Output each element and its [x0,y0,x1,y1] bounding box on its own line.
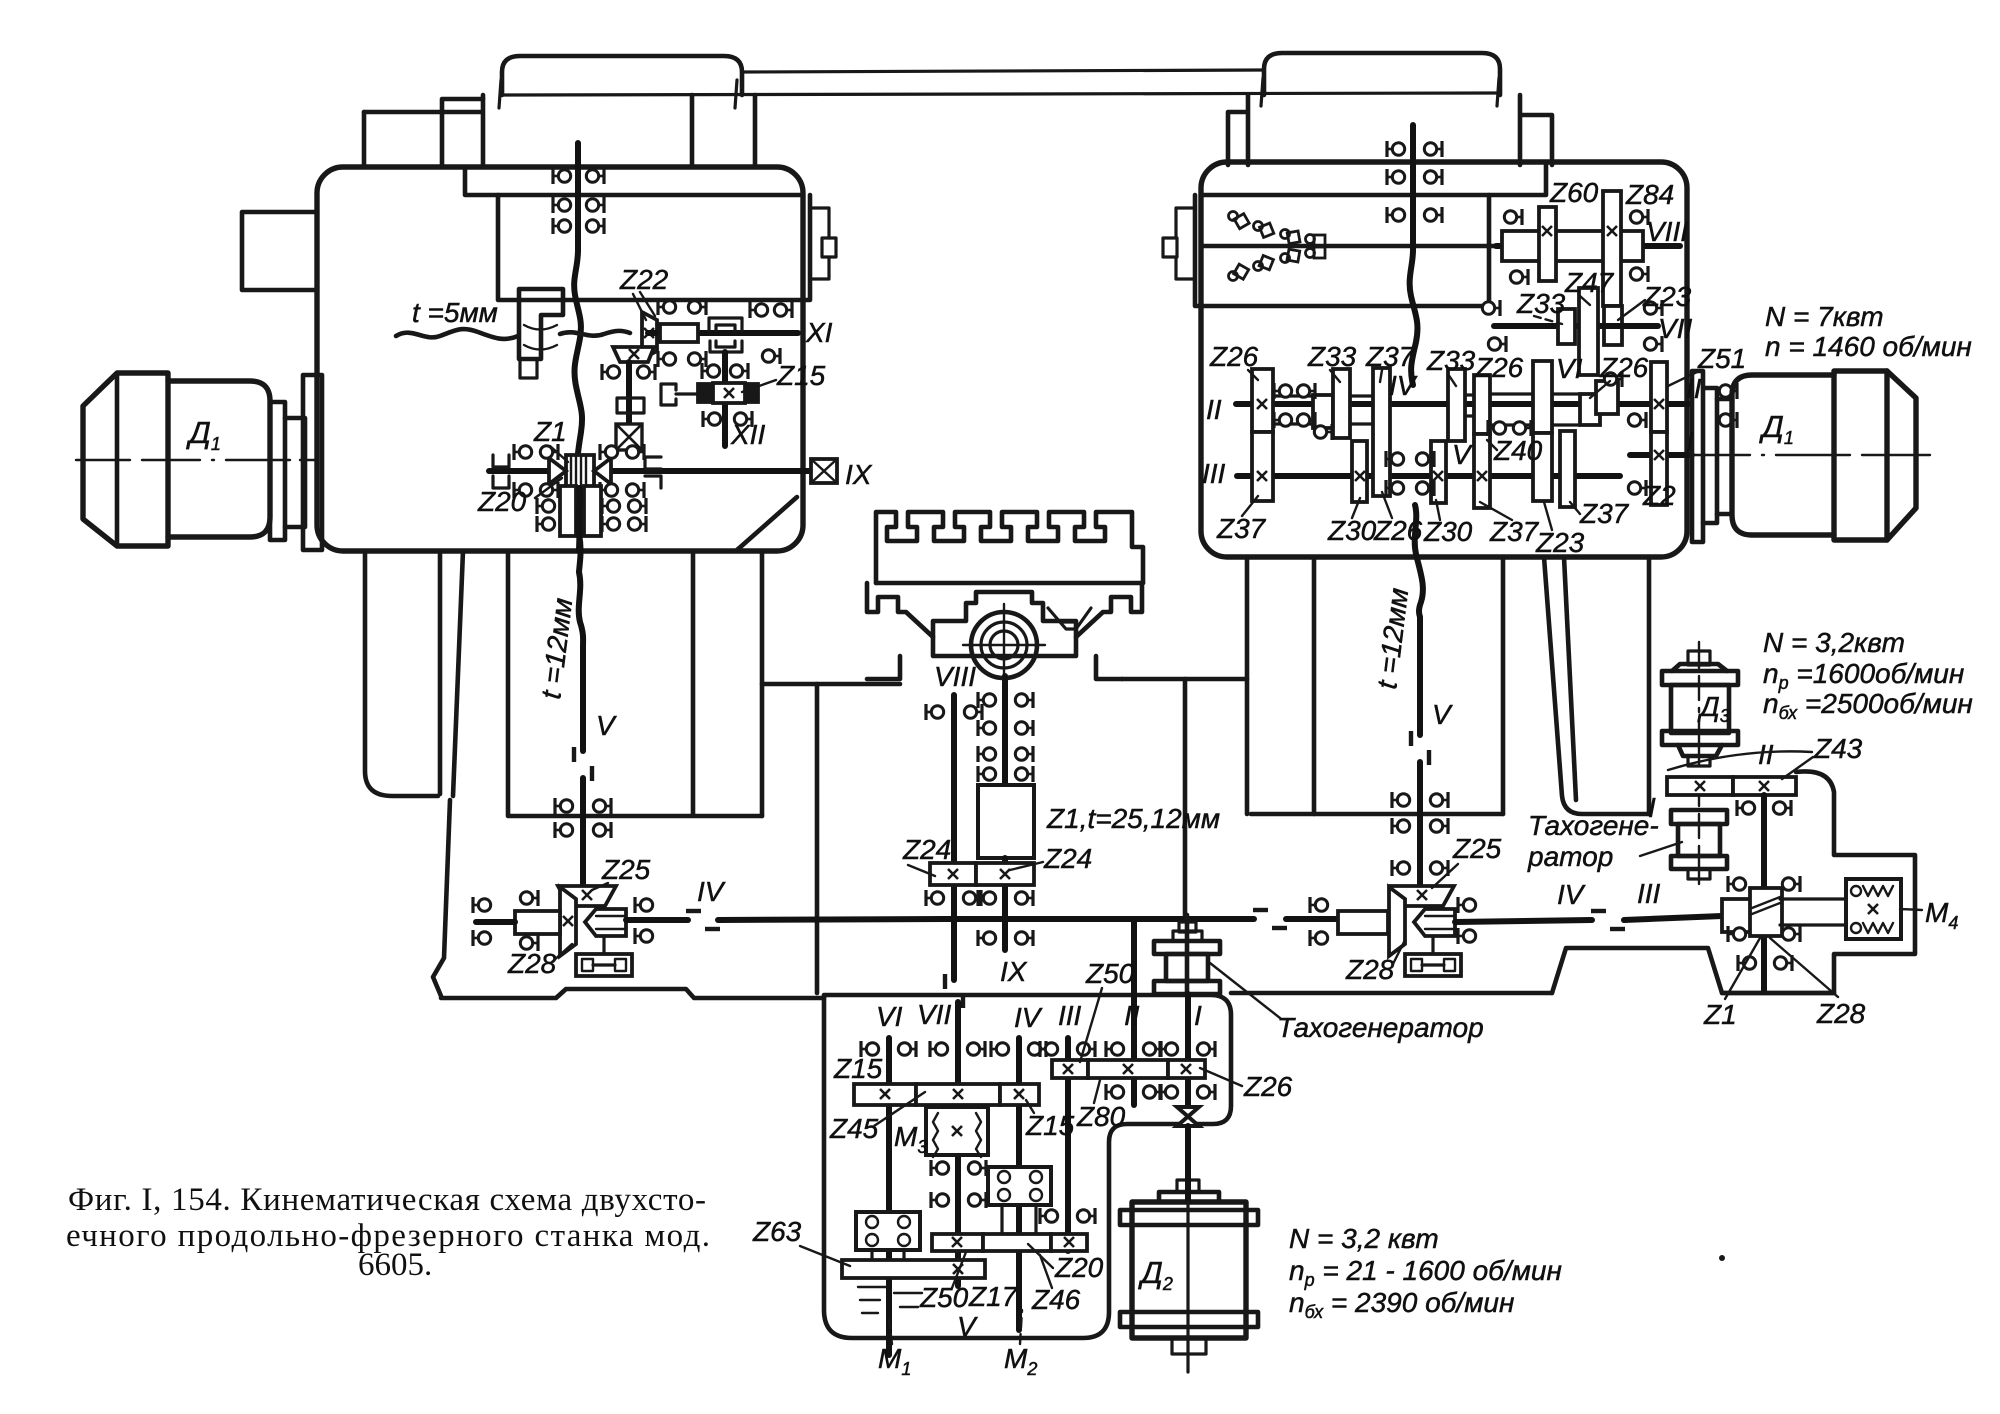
vertical feed screw (wavy) [574,143,582,551]
support post [815,684,820,993]
motor D1 left flange plate [303,375,322,550]
bearing VII right-bottom [1644,336,1662,352]
gear cover plate [498,195,810,300]
svg-text:III: III [1637,878,1661,909]
svg-text:VI: VI [876,1001,903,1032]
right column line a [1245,557,1250,814]
leader Z30 b2 [1352,498,1360,518]
leader Z25 right [1432,864,1458,888]
brake block Z28 left [576,954,632,976]
leader Z24 left [908,865,935,876]
leader M4 [1900,909,1922,910]
tachogenerator right upper flange [1671,810,1727,824]
svg-text:Z37: Z37 [1216,513,1267,544]
svg-text:N = 3,2 квт: N = 3,2 квт [1289,1223,1439,1254]
bearing VII left-top [1482,300,1500,316]
right column face bottom [1251,812,1503,817]
column line b [453,551,463,796]
clutch half on IV right [1414,909,1455,936]
bearing pairs right area [1604,371,1622,387]
motor D1 left body [168,381,270,537]
column line a [438,551,443,794]
leader Z1 right [1725,938,1760,999]
svg-text:IX: IX [845,459,873,490]
svg-text:Тахогенератор: Тахогенератор [1277,1012,1484,1043]
bearing pairs screw col row1 [978,692,996,708]
svg-text:Фиг. I, 154. Кинематическая сх: Фиг. I, 154. Кинематическая схема двухст… [68,1182,706,1218]
svg-text:Z30: Z30 [1327,515,1377,546]
saddle V-notch [1048,608,1091,631]
bearing pair IX below IV [978,930,996,946]
column outer casing left [365,551,438,796]
svg-text:Тахогене-: Тахогене- [1528,810,1659,841]
bearing sleeve bottom [520,935,538,951]
svg-text:Z23: Z23 [1642,281,1692,312]
bearing rows below worm right [602,498,620,514]
leader Z51 [1668,372,1697,386]
bearing pair Z22 shaft [602,364,620,380]
bearing VIII right-top [1630,209,1648,225]
bearing pair V right row1 [1392,792,1410,808]
shaft V right lower [1417,762,1423,890]
bearing row top VII [930,1041,948,1057]
horizontal screw t=5mm right part [560,331,630,336]
right head body [1228,95,1552,165]
svg-text:II: II [1686,373,1702,404]
shaft to M4 double line [1780,899,1846,925]
bed bottom under bracket [1722,991,1834,996]
leader M1 dashed [889,1320,892,1344]
vertical shaft from Z22 [626,362,632,425]
tachogenerator right stub [1688,869,1710,879]
left gearbox housing [317,167,803,551]
svg-text:I: I [1686,426,1694,457]
bearing pair VII below M3 [931,1160,949,1176]
bed left edge [433,800,450,996]
leader tacho right [1640,842,1682,856]
svg-text:III: III [1058,1000,1082,1031]
svg-text:VIII: VIII [934,661,976,692]
gear block Z37-Z23 [1533,361,1552,433]
shaft V upper [580,646,586,751]
work table with T-slots [876,512,1143,583]
svg-text:6605.: 6605. [358,1247,432,1283]
shaft V right wavy [1415,505,1423,617]
leader Z45 [874,1092,925,1126]
svg-text:II: II [1758,739,1774,770]
nut pipe arcs [524,325,557,350]
gear cover plate right [1195,195,1489,306]
bearing pair worm shaft row1 [1737,800,1755,816]
motor D1 left centerline [76,459,318,461]
bearing pair XI left-bottom [658,351,676,367]
screw nut bracket [519,289,563,359]
bearing pair VIII [926,704,944,720]
coupling IV left [686,911,720,929]
svg-text:Z26: Z26 [1209,341,1259,372]
elevating screw upper [1002,676,1008,785]
worm wheel housing right plate [584,486,601,536]
clutch jaws IX right [645,457,661,488]
scattered roller bearings in cover [1229,212,1326,281]
svg-text:Z37: Z37 [1365,341,1416,372]
motor D3 stub top [1688,651,1710,665]
bed bottom right of box [1231,991,1552,996]
tachogenerator center [1179,922,1196,932]
shaft VIII vertical [951,695,957,980]
motor D1 left step1 [270,402,285,540]
leader Z33 upper [1534,316,1562,324]
svg-text:Z15: Z15 [833,1053,883,1084]
saddle under step left [867,656,900,679]
motor D1 left step2 [285,418,305,527]
bearing pair below Z24 left [926,890,944,906]
bearing pair V right row2 [1392,818,1410,834]
shaft I right gearbox [1630,452,1692,458]
leader Z1 left [550,446,568,462]
shaft IX horizontal [489,468,810,474]
shaft V wavy upper [579,572,583,646]
svg-text:Z24: Z24 [902,834,951,865]
right column inner slant [1564,557,1576,800]
housing top step [1201,162,1546,195]
bevel gear Z22 on shaft XI [642,312,657,359]
shaft XII vertical [722,352,728,446]
leader Z26 c6 [1590,381,1610,398]
shaft Ib vertical [1185,994,1191,1180]
svg-text:Z43: Z43 [1813,733,1863,764]
bearing pair XI left-top [658,299,676,315]
gear row Z15-Z45-Z15 [854,1084,916,1105]
shaft IIIb vertical [1065,1038,1071,1251]
bearing sleeve top [520,890,538,906]
svg-text:Z37: Z37 [1579,498,1630,529]
leader Z63 [800,1246,850,1266]
svg-text:V: V [1452,439,1473,470]
gear row Z63 [842,1260,985,1278]
svg-text:Z15: Z15 [776,360,826,391]
nut crosshair [963,604,1045,686]
screw nut circle inner [990,631,1018,659]
bearing VII left-bottom [1488,336,1506,352]
svg-text:VII: VII [917,999,951,1030]
leader Z43 b [1782,757,1813,779]
leader Z37 b7 [1570,502,1580,514]
bearing pair V right row3 [1392,860,1410,876]
cover tab boss [822,238,836,257]
clutch jaws on XI [709,318,742,331]
bevel gear Z25 left [558,886,616,906]
gear stem Z28 left [602,936,605,954]
svg-text:nбх = 2390 об/мин: nбх = 2390 об/мин [1289,1287,1514,1322]
shaft IVb vertical [1016,1038,1022,1330]
bearing row top IIb [1106,1041,1124,1057]
bearing pair IX right-bottom [600,482,618,498]
screw below block [1002,858,1008,950]
bearing pairs screw col row4 [978,766,996,782]
bearing pair IV far-left bottom [473,930,491,946]
sleeve on XI [660,324,698,342]
svg-text:IV: IV [697,876,726,907]
step sleeve right [1580,394,1600,425]
bearing pair IX left-top [514,444,532,460]
bevel gear Z22 mate on vertical shaft [613,347,654,362]
svg-text:Z20: Z20 [477,486,527,517]
sleeve box on II [1313,395,1333,428]
leader M2 dashed [1020,1310,1022,1344]
svg-text:V: V [957,1311,978,1342]
clutch jaws IX left [493,455,509,488]
left head step box1 [364,99,483,167]
shaft IV to right cluster [1286,916,1338,922]
gear Z24 left [930,863,976,885]
bevel gear on IV left [560,887,576,956]
worm wheel housing left plate [560,486,576,536]
gear row lower Z50-Z20 [932,1234,983,1251]
sleeve on IV left [515,911,560,934]
clutch stems VI [872,1250,904,1262]
belt drive symbol on Ib [1177,1107,1199,1126]
svg-text:IX: IX [1000,956,1028,987]
tachogenerator right lower flange [1671,856,1727,869]
shaft VIII coupling to gearbox [945,974,963,1008]
motor D1 right flange plate [1692,371,1703,542]
svg-text:Z26: Z26 [1599,352,1649,383]
motor D3 stub bottom [1688,756,1710,766]
svg-text:nр = 21 - 1600 об/мин: nр = 21 - 1600 об/мин [1289,1255,1562,1290]
gear Z37 tall [1373,368,1390,496]
screw wavy through housing [578,488,580,572]
saddle under step right [1096,656,1122,679]
right column line c [1501,557,1506,814]
saddle support ledge [762,682,900,687]
leader Z15 [742,380,776,392]
svg-text:Z17: Z17 [968,1281,1019,1312]
cover side tab right [1176,208,1195,279]
gear Z84 [1603,191,1621,306]
gear Z33 second [1448,369,1465,441]
motor D2 flange bottom [1120,1312,1258,1327]
coupling tick right-right [1497,78,1499,106]
bed bottom edge left [441,989,824,998]
bearing pair IIIb lower [1040,1208,1058,1224]
leader Z37 b1 [1242,496,1258,516]
worm block Z1 t=25,12mm [978,785,1034,858]
svg-text:I: I [1194,1000,1202,1031]
gear row II right unit [1667,777,1733,795]
clutch stem IVb [1002,1205,1036,1234]
gear Z33 on VII [1558,309,1575,344]
leader Z20 [535,478,562,498]
saddle center bar [933,592,1076,656]
chamfer corner line [737,497,797,550]
cross line shaft between heads [742,70,1264,72]
shaft IV center-left [718,919,946,920]
bearing pairs right screw row2 [1387,169,1405,185]
bearing right of clutch r-bottom [1458,928,1476,944]
shaft V lower [580,778,586,888]
leader Z80 [1094,1080,1100,1103]
svg-text:VI: VI [1556,353,1583,384]
jaw clutch on Z22 shaft [617,398,644,413]
right head top cap [1264,53,1500,95]
leader Z20 bbox [1028,1244,1053,1268]
bearing VIII left-top [1504,209,1522,225]
svg-text:Z40: Z40 [1493,435,1543,466]
clutch box on IVb [988,1167,1051,1205]
leader Z26 bbox [1200,1068,1242,1086]
bearing pairs right screw row1 [1387,141,1405,157]
leader Z24 right [1010,862,1043,870]
bearing XI right-bottom [762,348,780,364]
nut lower stud [520,359,537,378]
leader Z22 a [633,292,655,320]
bevel gear on IV right [1389,887,1405,956]
svg-text:Z1: Z1 [533,416,567,447]
svg-text:Z33: Z33 [1426,345,1476,376]
gear row Z26-Z80 [1052,1060,1088,1078]
bearing below Z80 Ib [1160,1084,1178,1100]
clutch box on VI [856,1212,920,1250]
bearing VIII right-bottom [1630,266,1648,282]
svg-text:Z28: Z28 [1816,998,1866,1029]
svg-text:VIII: VIII [1646,216,1688,247]
bevel gear Z25 right [1390,886,1454,906]
screw nut circle middle [981,622,1027,668]
leader Z47 [1580,296,1590,305]
svg-text:Z26: Z26 [1373,515,1423,546]
bearing pair screw row2 [553,197,571,213]
leader Z37 b5 [1480,502,1512,520]
bearing pair IX left-bottom [514,482,532,498]
coupling tick left-left [499,80,501,108]
leader Z50 tacho [1080,988,1102,1062]
vertical feed screw right (wavy) [1410,125,1418,385]
bearing right of clutch top [635,897,653,913]
leader Z28 left [552,944,572,962]
motor D1 right step1 [1703,388,1717,523]
bracket outline right [1552,771,1915,993]
gear Z15 on XII [698,384,758,402]
shaft IV center [946,916,1254,922]
svg-text:Z28: Z28 [1345,954,1395,985]
M4 spring bottom [1851,923,1861,933]
bearing right of clutch r-top [1458,897,1476,913]
svg-text:Z50: Z50 [1085,958,1135,989]
svg-text:XII: XII [730,419,765,450]
gear Z47 on VII [1579,288,1598,375]
gear Z37 third [1560,431,1575,507]
worm housing [1722,899,1754,932]
clutch half on IV left [585,909,626,936]
motor D3 axis line [1698,642,1700,766]
M4 spring top [1851,886,1861,896]
bearing XI right-top [750,302,768,318]
motor D1 left hex end cap [83,373,168,546]
bearing pair IX right-top [600,444,618,460]
hex nuts around worm bottom [1728,926,1746,942]
bearing below Z80 IIb [1106,1084,1124,1100]
bearing pairs screw col row3 [978,746,996,762]
gear block Z26-Z37 far left [1252,369,1273,432]
bearing pair XII top [702,363,720,379]
svg-text:Z37: Z37 [1489,516,1540,547]
right column outer casing [1544,557,1649,814]
motor D1 right hex cap [1887,371,1916,540]
sleeve lines on II [1273,394,1580,425]
coupling tick left-right [735,80,737,108]
leader Z23 b6 [1544,502,1552,530]
shaft II right gearbox [1236,401,1690,407]
bearing VIII left-bottom [1510,269,1528,285]
gear stem Z28 right [1431,936,1434,954]
leader Z23 upper [1618,300,1645,320]
motor D2 step [1159,1192,1219,1202]
gear Z33 first [1333,369,1350,438]
svg-text:Z25: Z25 [601,854,651,885]
shaft VII right [1494,323,1658,329]
gear block Z51-Z23 right [1651,362,1667,432]
svg-text:ратор: ратор [1527,841,1613,872]
feed gearbox outline [824,995,1231,1338]
svg-text:II: II [1206,394,1222,425]
bearing pair V row2 [555,822,573,838]
svg-text:n = 1460 об/мин: n = 1460 об/мин [1765,331,1972,362]
column face rect [508,553,762,816]
horizontal screw t=5mm (wavy) [396,329,518,339]
svg-text:N = 7квт: N = 7квт [1765,301,1884,332]
bearing row top IIIb [1040,1041,1058,1057]
coupling shaft V [574,747,592,781]
right support ledge [1122,677,1247,682]
bearing pairs near Z40 [1488,420,1506,436]
leader Z26 c1 [1248,370,1258,380]
motor D1 right body [1732,375,1834,535]
leader tacho center [1210,963,1280,1018]
bevel half left of worm [549,458,566,484]
leader Z43 a [1668,751,1812,770]
bearing VII right-top [1644,300,1662,316]
svg-text:Z45: Z45 [829,1113,879,1144]
left head body [364,95,755,167]
motor D1 right band [1834,371,1887,540]
motor D2 flange top [1120,1210,1258,1225]
cover centerline shaft [1203,244,1502,249]
svg-text:V: V [596,710,617,741]
shaft XI [648,330,798,336]
clutch M3 box with springs [926,1107,988,1155]
svg-text:Z23: Z23 [1535,527,1585,558]
motor D2 body [1132,1202,1246,1338]
worm Z1 on IX [566,455,594,488]
shaft IV mid-left [626,917,688,923]
worm helix block [1750,888,1782,936]
svg-text:XI: XI [805,317,833,348]
right gearbox housing [1201,162,1687,557]
motor D1 right step2 [1717,399,1732,514]
bearing row top IVb [991,1041,1009,1057]
motor D2 shaft [1185,1126,1191,1202]
shaft III right gearbox [1237,473,1620,479]
housing top step [465,167,803,195]
bearing pair XII bottom [703,411,721,427]
shaft VI vertical [886,1038,892,1260]
svg-text:Z26: Z26 [1243,1071,1293,1102]
bearing pairs on II left [1274,383,1292,399]
bearing pair screw top [553,168,571,184]
bearing row top Ib [1160,1041,1178,1057]
coupling IV right-center [1253,910,1287,928]
